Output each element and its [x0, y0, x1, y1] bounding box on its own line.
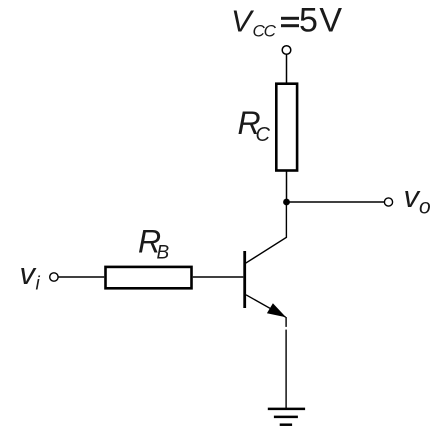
svg-text:v: v — [404, 179, 421, 214]
resistor RB — [106, 267, 192, 288]
wire base — [193, 276, 244, 278]
ground — [268, 409, 305, 425]
svg-text:5V: 5V — [299, 2, 344, 40]
transistor Q1 base bar — [243, 251, 246, 308]
transistor Q1 emitter line — [246, 295, 286, 317]
transistor Q1 emitter arrow — [267, 303, 286, 317]
svg-text:o: o — [419, 196, 431, 219]
terminal vi — [50, 273, 58, 281]
wire RC to node — [286, 172, 288, 203]
label RB — [138, 224, 170, 264]
terminal VCC — [282, 46, 291, 55]
node collector junction — [283, 199, 290, 206]
svg-text:v: v — [20, 256, 37, 291]
label VCC=5V — [231, 2, 344, 41]
wire emitter to ground lower segment — [285, 330, 287, 408]
label vi — [20, 256, 41, 294]
svg-text:V: V — [231, 4, 255, 39]
label vo — [404, 179, 432, 219]
resistor RC — [276, 84, 297, 171]
svg-text:CC: CC — [253, 21, 277, 40]
wire vi to RB — [58, 276, 104, 278]
wire collector — [246, 202, 287, 263]
svg-text:C: C — [256, 124, 271, 146]
terminal vo — [384, 198, 392, 206]
wire VCC to RC — [286, 54, 288, 83]
svg-text:B: B — [157, 242, 170, 263]
wire node to vo terminal — [287, 201, 385, 203]
label RC — [238, 105, 271, 146]
wire emitter to ground upper segment — [285, 317, 287, 327]
